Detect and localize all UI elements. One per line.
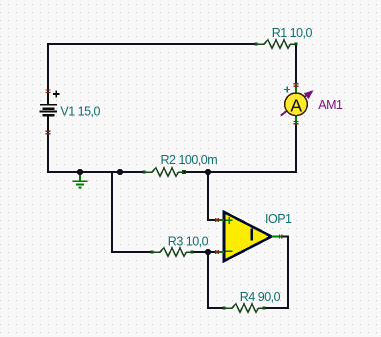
battery plus sign xyxy=(53,91,60,98)
ammeter pin marker bottom xyxy=(294,121,299,123)
ground xyxy=(73,173,88,188)
svg-text:R4 90,0: R4 90,0 xyxy=(240,290,281,304)
wire right top: R1 right down to ammeter xyxy=(295,44,297,84)
svg-text:V1 15,0: V1 15,0 xyxy=(60,104,100,118)
svg-text:A: A xyxy=(290,95,302,115)
wire noninverting drop xyxy=(208,172,216,220)
resistor R1 xyxy=(256,40,296,49)
plus symbol inside xyxy=(226,217,233,251)
resistor R4 xyxy=(224,304,264,313)
resistor R2 xyxy=(144,168,184,177)
svg-text:R2 100,0m: R2 100,0m xyxy=(161,153,218,167)
wire drop to R3 xyxy=(112,172,152,252)
node A junction at x=120 xyxy=(117,169,123,175)
wire middle rail right: R2 right to right vertical xyxy=(184,171,296,173)
node ground junction xyxy=(77,169,83,175)
pin + (noninverting) xyxy=(216,219,224,221)
pin - (inverting) xyxy=(216,251,224,253)
op-amp pin marker output xyxy=(280,234,282,238)
svg-text:AM1: AM1 xyxy=(318,98,343,112)
wire feedback left: node down to R4 xyxy=(208,252,224,308)
op-amp pin marker + input xyxy=(216,218,219,222)
ammeter plus sign xyxy=(284,86,290,92)
svg-text:IOP1: IOP1 xyxy=(265,212,292,226)
resistor R3 xyxy=(152,248,192,257)
wire feedback right: R4 to op-amp output xyxy=(264,237,288,309)
svg-text:R3 10,0: R3 10,0 xyxy=(168,234,209,248)
wire R3 to inverting node xyxy=(192,251,216,253)
node B junction at x=208 xyxy=(205,169,211,175)
wire middle rail left: battery bottom to R2 left xyxy=(48,132,144,172)
wire top: battery top to R1 left xyxy=(48,44,256,92)
svg-text:R1 10,0: R1 10,0 xyxy=(272,26,313,40)
pin output xyxy=(272,236,283,238)
op-amp pin marker - input xyxy=(216,250,219,254)
battery pin marker top xyxy=(46,90,51,92)
battery V1 xyxy=(40,92,58,132)
node C inverting-input junction xyxy=(205,249,211,255)
op-amp ideal bar xyxy=(251,229,253,241)
battery pin marker bottom xyxy=(46,131,51,133)
op-amp U1 IOP1 xyxy=(216,212,282,261)
ammeter arrow xyxy=(281,90,314,116)
ammeter pin marker top xyxy=(294,84,299,86)
wire right bottom: ammeter down to middle rail xyxy=(295,124,297,172)
ammeter AM1 xyxy=(285,84,308,124)
